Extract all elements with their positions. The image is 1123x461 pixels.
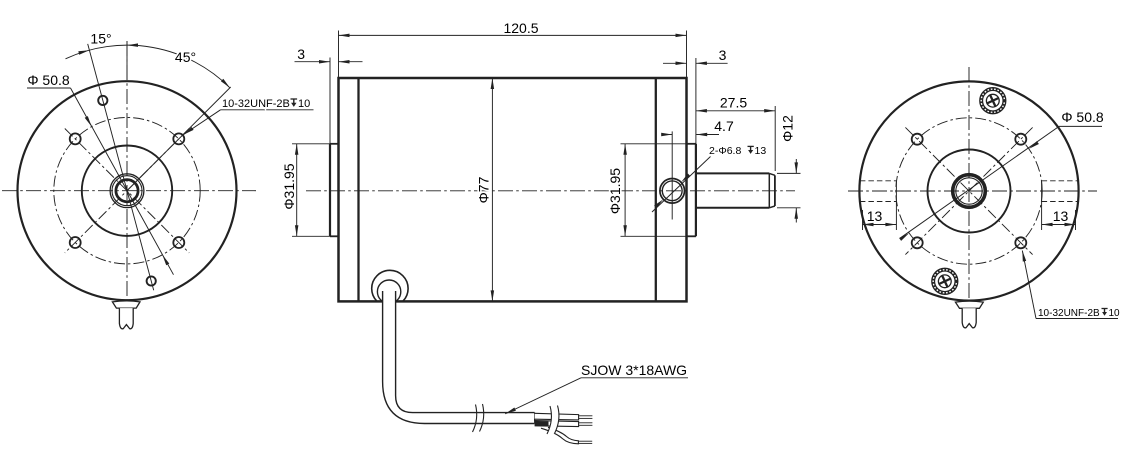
counterbore leader arrowhead lower [654, 199, 663, 208]
svg-text:10: 10 [298, 98, 310, 110]
wire 2 middle insulation [535, 421, 579, 427]
thread callout underline right view [1036, 318, 1118, 320]
svg-text:Φ 50.8: Φ 50.8 [27, 72, 70, 88]
rear end-bell seam line [655, 78, 657, 301]
wire 1 bare conductor [579, 415, 593, 417]
dimension 3 rear lines and arrows [663, 62, 687, 64]
dimension 3 rear extension line [695, 58, 697, 144]
left view diagonal centerline NW-SE [65, 129, 189, 253]
counterbore leader arrowhead upper [681, 174, 690, 183]
middle view motor body outline [339, 78, 687, 301]
cable gland outer circle [372, 270, 408, 306]
left view horizontal centerline [2, 190, 256, 192]
right view horizontal centerline [848, 190, 1097, 192]
right view mounting hole 2 (10-32UNF) [1015, 134, 1026, 145]
dimension phi31.95 front line and arrows [296, 144, 298, 237]
right view bolt circle (dash-dot) [896, 118, 1042, 264]
phi50.8 label underline [27, 87, 71, 89]
svg-text:SJOW 3*18AWG: SJOW 3*18AWG [581, 362, 687, 378]
dimension 3 front lines and arrows [295, 61, 331, 63]
left view small hole bottom (15deg) [147, 276, 156, 285]
depth symbol right callout [1102, 308, 1108, 310]
depth symbol left callout [291, 98, 298, 100]
wire break marks [547, 406, 551, 434]
front pilot boss phi31.95 [329, 144, 331, 237]
arrowhead at 45deg line [221, 79, 230, 88]
left view 45deg hole axis line [127, 87, 231, 191]
cable from gland [383, 291, 535, 424]
svg-text:10-32UNF-2B: 10-32UNF-2B [222, 98, 290, 110]
left view diagonal centerline NE-SW [65, 129, 189, 253]
right view shaft rings [953, 175, 986, 208]
wire 3 bare conductor [578, 440, 592, 442]
dimension phi12 extension lines [777, 172, 801, 174]
left view cable stub [119, 308, 133, 329]
svg-text:Φ12: Φ12 [780, 115, 796, 142]
left view mounting hole 4 (10-32UNF) [173, 237, 184, 248]
left view vertical centerline [126, 41, 128, 317]
svg-text:13: 13 [1053, 208, 1069, 224]
right view cable stub [962, 308, 976, 327]
svg-text:13: 13 [755, 145, 767, 157]
dimension 120.5 arrowheads [339, 34, 350, 38]
svg-text:45°: 45° [175, 49, 196, 65]
right view phillips screw top [980, 88, 1006, 114]
thread callout leader right view [1022, 251, 1036, 319]
svg-text:2-Φ6.8: 2-Φ6.8 [709, 145, 741, 157]
svg-text:Φ31.95: Φ31.95 [281, 163, 297, 209]
dimension phi77 line and arrows [491, 78, 493, 301]
right view rear boss circle [928, 150, 1011, 233]
wire 3 bottom insulation [541, 427, 578, 444]
right view hidden slot left [860, 180, 897, 182]
svg-text:10-32UNF-2B: 10-32UNF-2B [1038, 308, 1100, 319]
thread callout underline [221, 109, 314, 111]
right view outer circle (motor rear) [859, 81, 1078, 300]
left view mounting hole 3 (10-32UNF) [70, 237, 81, 248]
right view cable bushing [955, 301, 983, 308]
rear pilot boss phi31.95 [695, 144, 697, 237]
dimension phi31.95 rear extension lines [621, 143, 696, 145]
thread callout leader left view [184, 110, 221, 135]
SJOW cable leader line [505, 378, 581, 414]
svg-text:4.7: 4.7 [714, 118, 734, 134]
wire 2 bare conductor [579, 422, 593, 424]
dimension 120.5 line [339, 34, 687, 36]
dimension 13 right line and arrows [1042, 224, 1076, 226]
shaft phi12 [696, 172, 769, 174]
dimension 120.5 extension lines [338, 31, 340, 79]
dimension 13 left line and arrows [863, 224, 897, 226]
svg-text:Φ77: Φ77 [476, 176, 492, 203]
phi50.8 bolt-circle dimension line [71, 88, 174, 275]
right view mounting hole 3 (10-32UNF) [912, 237, 923, 248]
right view phillips screw bottom [932, 268, 958, 294]
dimension phi12 lines and arrows [795, 159, 797, 173]
left view outer circle (motor front face) [18, 81, 237, 300]
arrowhead at vertical centerline [127, 43, 138, 47]
left view 15deg hole axis line [88, 44, 154, 290]
right view hidden slot right [1042, 180, 1079, 182]
right view mounting hole 1 (10-32UNF) [912, 134, 923, 145]
left view vertical centerline solid top segment [126, 41, 128, 80]
svg-text:Φ 50.8: Φ 50.8 [1061, 109, 1104, 125]
dimension phi31.95 rear line and arrows [624, 144, 626, 237]
svg-text:120.5: 120.5 [503, 20, 538, 36]
angular dimension arc 15/45 deg [66, 45, 230, 88]
right view diagonal centerline NE-SW [905, 127, 1032, 254]
phi50.8 dimension line right view [900, 126, 1059, 238]
left view bolt circle phi50.8 (dash-dot) [54, 118, 200, 264]
dimension 3 front extension line [329, 58, 331, 144]
wire break gap [547, 406, 559, 435]
phi50.8 right underline [1059, 125, 1102, 127]
svg-text:Φ31.95: Φ31.95 [607, 168, 623, 214]
phi50.8 right arrowhead lower [899, 233, 909, 241]
svg-text:3: 3 [719, 47, 727, 63]
svg-text:27.5: 27.5 [720, 95, 747, 111]
left view cable bushing [112, 301, 140, 308]
right view vertical centerline [968, 67, 970, 318]
phi50.8 right arrowhead upper [1029, 141, 1039, 149]
counterbore callout leader [652, 157, 711, 213]
left view front boss circle [82, 146, 172, 236]
depth symbol middle callout [748, 145, 754, 147]
svg-text:10: 10 [1109, 308, 1121, 319]
middle view horizontal centerline [306, 190, 795, 192]
SJOW leader arrowhead [505, 408, 516, 414]
left view small hole top (15deg) [98, 96, 107, 105]
thread callout arrowhead [184, 127, 194, 135]
rear screw hole 2-phi6.8 [660, 179, 685, 204]
wire 1 top insulation [535, 413, 579, 420]
dimension 4.7 extension line (hole axis) [671, 131, 673, 219]
thread callout arrowhead right view [1022, 251, 1026, 262]
left view mounting hole 1 (10-32UNF) [70, 133, 81, 144]
left view mounting hole 2 (10-32UNF) [173, 133, 184, 144]
left view shaft rings [110, 174, 144, 208]
cable end cap [534, 413, 536, 424]
arrowhead at 15deg line [78, 50, 89, 55]
svg-text:3: 3 [297, 46, 305, 62]
right view mounting hole 4 (10-32UNF) [1015, 237, 1026, 248]
dimension phi31.95 front extension lines [292, 143, 330, 145]
dimension 4.7 lines and arrows [663, 134, 673, 136]
dimension 27.5 line and arrows [696, 110, 775, 112]
front end-bell seam line [357, 78, 359, 301]
wire 2 dark jacket stub [535, 421, 549, 426]
dimension 27.5 extension line [774, 106, 776, 171]
cable break marks [473, 405, 477, 433]
phi50.8 arrowhead upper [85, 116, 92, 127]
right view diagonal centerline NW-SE [905, 127, 1032, 254]
svg-text:15°: 15° [90, 31, 111, 47]
svg-text:13: 13 [867, 208, 883, 224]
phi50.8 arrowhead lower [162, 255, 169, 265]
